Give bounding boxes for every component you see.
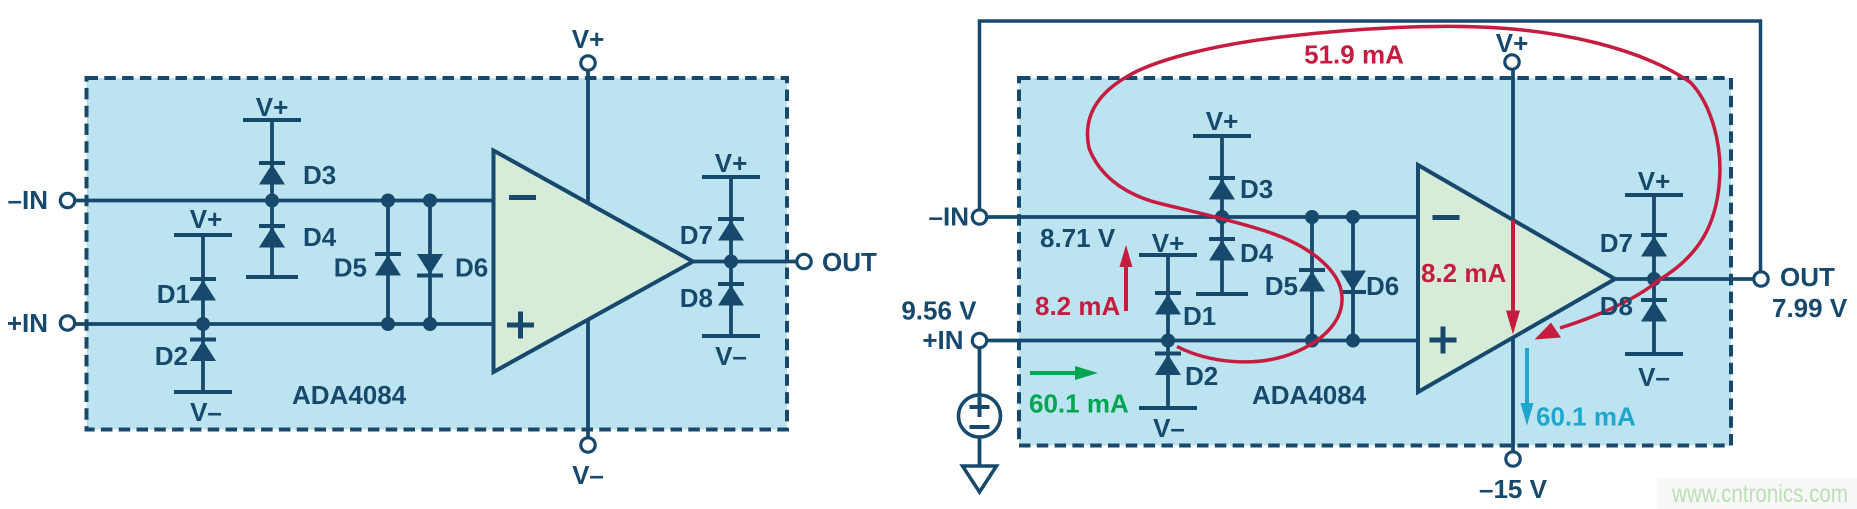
svg-text:D6: D6	[1366, 271, 1399, 301]
svg-text:ADA4084: ADA4084	[292, 380, 407, 410]
svg-text:D3: D3	[1240, 174, 1273, 204]
svg-text:D7: D7	[1600, 228, 1633, 258]
svg-text:OUT: OUT	[822, 247, 877, 277]
svg-text:V+: V+	[1152, 228, 1185, 258]
svg-text:D4: D4	[303, 222, 337, 252]
svg-text:ADA4084: ADA4084	[1252, 380, 1367, 410]
svg-text:V+: V+	[715, 148, 748, 178]
svg-text:V–: V–	[715, 341, 747, 371]
svg-text:60.1 mA: 60.1 mA	[1029, 389, 1129, 419]
svg-text:OUT: OUT	[1780, 262, 1835, 292]
svg-text:60.1 mA: 60.1 mA	[1536, 402, 1636, 432]
svg-text:V+: V+	[572, 24, 605, 54]
svg-text:–15 V: –15 V	[1479, 474, 1548, 504]
svg-text:+IN: +IN	[922, 325, 963, 355]
svg-text:8.71 V: 8.71 V	[1040, 223, 1116, 253]
svg-text:V–: V–	[1153, 413, 1185, 443]
svg-text:51.9 mA: 51.9 mA	[1304, 40, 1404, 70]
svg-text:8.2 mA: 8.2 mA	[1035, 291, 1120, 321]
svg-text:D2: D2	[1185, 361, 1218, 391]
svg-text:+IN: +IN	[7, 308, 48, 338]
svg-text:V–: V–	[1638, 362, 1670, 392]
svg-text:–IN: –IN	[929, 202, 969, 232]
svg-text:D8: D8	[680, 283, 713, 313]
svg-text:8.2 mA: 8.2 mA	[1421, 258, 1506, 288]
svg-text:V–: V–	[190, 397, 222, 427]
svg-text:V+: V+	[1638, 166, 1671, 196]
svg-text:V+: V+	[1206, 106, 1239, 136]
svg-text:www.cntronics.com: www.cntronics.com	[1671, 480, 1848, 508]
svg-text:D7: D7	[680, 220, 713, 250]
svg-text:D5: D5	[334, 253, 367, 283]
svg-text:D1: D1	[157, 279, 190, 309]
svg-text:D1: D1	[1183, 301, 1216, 331]
svg-text:D3: D3	[303, 160, 336, 190]
svg-text:9.56 V: 9.56 V	[901, 296, 977, 326]
svg-text:V+: V+	[256, 92, 289, 122]
svg-text:V+: V+	[1496, 28, 1529, 58]
svg-text:D2: D2	[155, 341, 188, 371]
svg-text:V+: V+	[190, 204, 223, 234]
svg-text:7.99 V: 7.99 V	[1772, 293, 1848, 323]
svg-text:V–: V–	[572, 460, 604, 490]
svg-text:D8: D8	[1600, 291, 1633, 321]
svg-text:–IN: –IN	[8, 185, 48, 215]
svg-text:D6: D6	[455, 253, 488, 283]
svg-text:D5: D5	[1265, 271, 1298, 301]
svg-text:D4: D4	[1240, 238, 1274, 268]
